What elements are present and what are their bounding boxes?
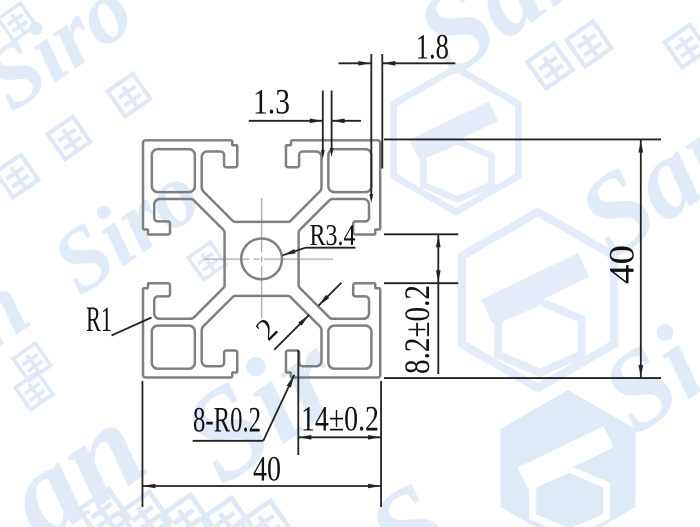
svg-text:R1: R1 (86, 299, 112, 339)
svg-text:R3.4: R3.4 (310, 217, 356, 252)
svg-text:40: 40 (602, 245, 642, 284)
svg-text:8.2±0.2: 8.2±0.2 (397, 285, 437, 374)
svg-text:14±0.2: 14±0.2 (301, 399, 379, 439)
svg-text:40: 40 (253, 449, 281, 489)
svg-text:S: S (344, 456, 475, 527)
svg-text:1.8: 1.8 (416, 26, 449, 66)
svg-text:8-R0.2: 8-R0.2 (193, 400, 261, 440)
svg-text:1.3: 1.3 (253, 82, 290, 122)
svg-text:Siro: Siro (35, 143, 219, 313)
svg-text:Siro: Siro (0, 0, 151, 129)
